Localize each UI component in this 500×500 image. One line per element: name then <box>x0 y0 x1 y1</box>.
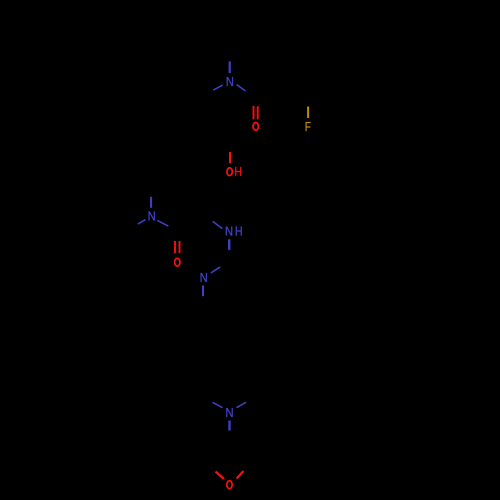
svg-text:N: N <box>225 405 233 420</box>
wire bond N3=C up-right (blue half) <box>211 267 220 273</box>
wire bond N2-CH3 upper (blue half) <box>150 197 152 208</box>
wire bond C-F (olive half) <box>307 107 309 119</box>
svg-text:H: H <box>234 165 242 179</box>
wire bond N1-C(=O) right (blue half) <box>237 85 246 91</box>
node O3 oxetane oxygen label <box>227 481 232 489</box>
node O-H hydroxyl label O <box>227 168 232 176</box>
wire bond CH2-O oxetane right (red half) <box>237 471 244 479</box>
svg-text:H: H <box>235 225 243 239</box>
wire bond N1-CH3 upper (blue half) <box>229 61 231 73</box>
wire bond ring C-N4 upper-left (blue half) <box>213 402 223 407</box>
wire bond N2-C(=O) right (blue half) <box>157 220 168 226</box>
wire bond C-OH (red half) <box>229 152 231 163</box>
wire bond N3-CH2 downward (blue half) <box>202 286 204 297</box>
svg-text:N: N <box>225 224 233 239</box>
wire bond NH-C downward (blue half) <box>228 239 230 250</box>
wire bond C-NH from upper-left (blue half) <box>213 221 223 228</box>
node O2 carbonyl oxygen label <box>175 258 180 266</box>
wire C=O double bond line 2 (red half) <box>257 106 259 119</box>
wire C=O amide2 double bond line 1 (red half) <box>174 241 176 253</box>
wire bond N2-CH3 left (blue half) <box>138 220 146 225</box>
wire bond ring C-N4 upper-right (blue half) <box>237 402 247 407</box>
svg-text:N: N <box>226 74 234 89</box>
wire bond N4-CH oxetane downward (blue half) <box>228 421 230 431</box>
wire C=O amide2 double bond line 2 (red half) <box>179 241 181 253</box>
wire C=O double bond line 1 (red half) <box>253 106 255 119</box>
wire bond N1-C ring left (blue half) <box>213 85 222 90</box>
svg-text:N: N <box>200 270 208 285</box>
node O1 carbonyl oxygen label <box>253 122 258 130</box>
wire bond CH2-O oxetane left (red half) <box>216 472 225 480</box>
svg-text:F: F <box>305 121 311 134</box>
svg-text:N: N <box>148 209 156 224</box>
